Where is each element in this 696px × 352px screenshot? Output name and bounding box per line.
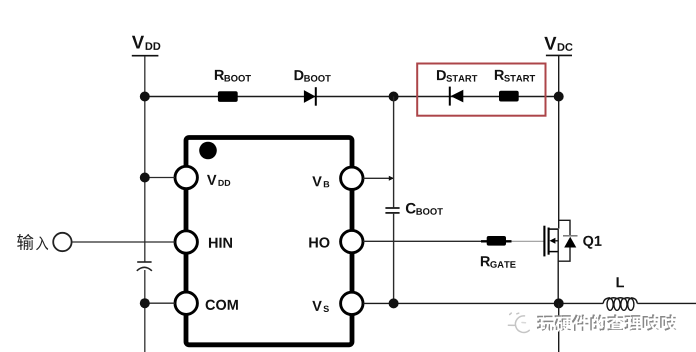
IC pin-1 dot — [199, 142, 217, 160]
transistor Q1 drain stub — [549, 228, 559, 230]
wire RGATE to gate light — [512, 240, 545, 242]
wire top boot rail — [145, 96, 559, 98]
capacitor C-filter curved plate — [137, 267, 152, 271]
wire rail to VDD pin — [145, 177, 175, 179]
wire rail to COM — [145, 302, 175, 304]
transistor Q1 body diode lower lead — [558, 248, 570, 262]
pin HO — [341, 230, 363, 252]
RBOOT label — [215, 70, 224, 80]
transistor Q1 gate bar — [543, 226, 545, 257]
supply VDD terminal bar — [132, 55, 159, 57]
wire input to HIN — [72, 241, 175, 243]
node VDC boot junction — [554, 92, 564, 102]
transistor Q1 body diode cathode bar — [563, 235, 578, 237]
DSTART label — [437, 70, 446, 80]
wire below Q1 source junction — [558, 303, 560, 352]
node VDD pin junction — [140, 173, 150, 183]
supply VDD label — [132, 36, 144, 49]
IC label VB — [312, 176, 321, 186]
capacitor CBOOT bottom plate — [385, 212, 399, 214]
wire VDC vertical — [558, 56, 560, 229]
pin VS — [341, 292, 363, 314]
wire CBOOT vertical upper — [393, 97, 395, 208]
Q1 label — [583, 236, 601, 249]
diode DBOOT — [304, 87, 316, 106]
input label Chinese — [17, 234, 48, 250]
DBOOT label — [295, 70, 304, 80]
transistor Q1 internal vertical — [557, 229, 559, 303]
IC label VS — [312, 301, 321, 311]
IC label VDD — [207, 175, 216, 185]
capacitor CBOOT top plate — [385, 207, 399, 209]
IC label HIN — [209, 238, 232, 248]
pin COM — [175, 292, 197, 314]
pin VDD — [175, 166, 197, 188]
pin VB — [341, 167, 363, 189]
red highlight box — [417, 64, 545, 116]
node CBOOT VS junction — [389, 298, 399, 308]
watermark icon — [508, 313, 529, 332]
supply VDC label — [544, 37, 556, 50]
RGATE label — [481, 256, 490, 266]
inductor L label — [617, 277, 624, 287]
watermark text — [537, 314, 678, 332]
capacitor C-filter top plate — [137, 261, 151, 263]
transistor Q1 source stub — [549, 251, 559, 253]
wire after inductor — [637, 302, 696, 304]
node boot CBOOT junction — [389, 92, 399, 102]
transistor Q1 body diode branch upper — [558, 220, 570, 235]
IC label HO — [309, 237, 329, 247]
wire VDD rail vertical upper — [144, 56, 146, 262]
IC label COM — [206, 300, 238, 310]
node VB tick — [389, 176, 394, 181]
resistor RGATE leads — [481, 240, 512, 242]
inductor L coil — [603, 298, 637, 311]
wire HO to RGATE — [363, 240, 487, 242]
supply VDC terminal bar — [546, 54, 572, 56]
resistor RBOOT — [218, 91, 238, 102]
resistor RGATE — [487, 236, 506, 246]
resistor RSTART — [499, 91, 519, 102]
transistor Q1 channel bar — [548, 228, 550, 255]
pin HIN — [175, 231, 197, 253]
diode DSTART — [450, 87, 464, 106]
wire VDD rail vertical lower — [144, 270, 146, 352]
transistor Q1 body arrow — [550, 238, 559, 244]
transistor Q1 body diode triangle — [564, 237, 576, 248]
wire VS horizontal — [363, 302, 603, 304]
input terminal circle — [53, 233, 71, 251]
node VDD boot junction — [140, 92, 150, 102]
op IC U1 outline — [186, 138, 352, 345]
wire VB pin to CBOOT — [363, 177, 394, 179]
CBOOT label — [406, 203, 416, 214]
RSTART label — [495, 70, 504, 80]
wire CBOOT vertical lower — [393, 214, 395, 304]
node COM junction — [140, 298, 150, 308]
node Q1 source VS junction — [554, 298, 564, 308]
